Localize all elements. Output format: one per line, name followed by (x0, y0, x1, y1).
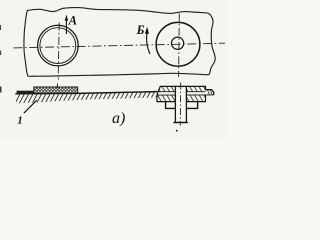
svg-text:Б: Б (136, 23, 145, 37)
svg-text:А: А (68, 13, 77, 27)
svg-text:1: 1 (17, 115, 23, 127)
svg-text:а): а) (112, 110, 125, 127)
